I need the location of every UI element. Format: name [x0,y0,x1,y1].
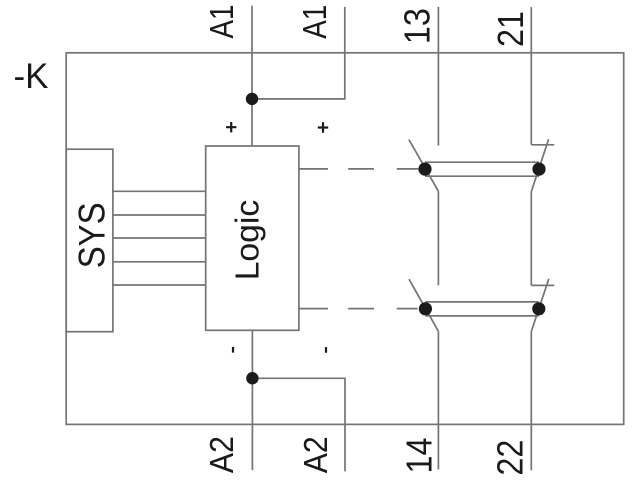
svg-text:21: 21 [490,11,531,47]
svg-text:-K: -K [14,57,49,96]
svg-text:22: 22 [489,440,530,476]
svg-text:14: 14 [398,438,439,474]
svg-text:SYS: SYS [72,202,113,268]
svg-text:A1: A1 [296,5,333,39]
svg-text:A1: A1 [203,5,240,39]
svg-text:13: 13 [396,8,437,44]
svg-text:Logic: Logic [229,200,266,281]
svg-text:A2: A2 [297,436,334,473]
svg-text:A2: A2 [203,436,240,473]
